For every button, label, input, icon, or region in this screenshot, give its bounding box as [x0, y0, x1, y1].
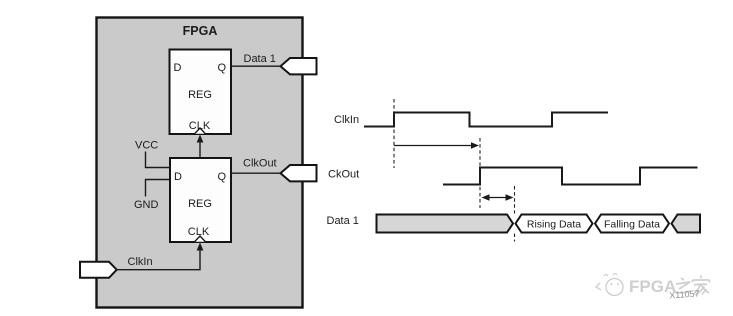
- bus segment unknown gray right: [672, 215, 701, 233]
- wire U1.Q to Data1 port: [231, 65, 282, 67]
- FPGA block outline: [97, 18, 303, 308]
- register U2 box: [170, 158, 231, 242]
- svg-text:REG: REG: [188, 198, 212, 210]
- svg-text:GND: GND: [134, 199, 159, 211]
- svg-text:ClkOut: ClkOut: [243, 158, 277, 170]
- svg-text:Falling Data: Falling Data: [604, 219, 660, 231]
- net GND wire: [146, 180, 171, 197]
- wire U2.Q to ClkOut port: [231, 172, 282, 174]
- wire clock through U2 to U1.CLK: [197, 135, 204, 159]
- svg-text:X11057: X11057: [669, 288, 700, 300]
- port Data 1 output pad: [281, 58, 317, 74]
- svg-text:ClkIn: ClkIn: [334, 114, 359, 126]
- dashed marker at data transition: [514, 186, 516, 242]
- dashed marker at ClkIn rising edge: [393, 99, 395, 168]
- port ClkIn input pad: [80, 262, 117, 278]
- svg-text:CkOut: CkOut: [328, 169, 359, 181]
- watermark logo: [596, 274, 623, 296]
- clock delay arrow: [394, 142, 479, 149]
- svg-text:VCC: VCC: [135, 140, 158, 152]
- bus segment Rising Data: [516, 215, 593, 233]
- svg-text:CLK: CLK: [188, 226, 210, 238]
- svg-text:D: D: [174, 171, 182, 183]
- svg-text:FPGA: FPGA: [183, 24, 218, 38]
- waveform CkOut: [443, 168, 698, 185]
- svg-text:Data 1: Data 1: [327, 215, 359, 227]
- watermark text FPGA之家: [629, 276, 710, 297]
- register U1 box: [170, 50, 232, 135]
- svg-text:Q: Q: [218, 62, 227, 74]
- svg-text:Data 1: Data 1: [244, 53, 276, 65]
- svg-text:Q: Q: [218, 171, 227, 183]
- svg-text:Rising Data: Rising Data: [527, 219, 581, 231]
- U1 clock edge triangle: [195, 128, 206, 134]
- U2 clock edge triangle: [195, 236, 206, 242]
- port ClkOut output pad: [281, 165, 317, 181]
- waveform ClkIn: [364, 113, 608, 127]
- wire ClkIn to U2.CLK: [117, 243, 204, 270]
- bus segment Falling Data: [595, 215, 669, 233]
- svg-text:REG: REG: [188, 89, 212, 101]
- bus segment unknown gray left: [377, 215, 514, 233]
- dashed marker at CkOut rising edge: [479, 138, 481, 208]
- svg-text:D: D: [174, 62, 182, 74]
- svg-text:ClkIn: ClkIn: [128, 256, 153, 268]
- net VCC wire: [146, 152, 171, 168]
- clock to data delay arrow: [482, 194, 514, 201]
